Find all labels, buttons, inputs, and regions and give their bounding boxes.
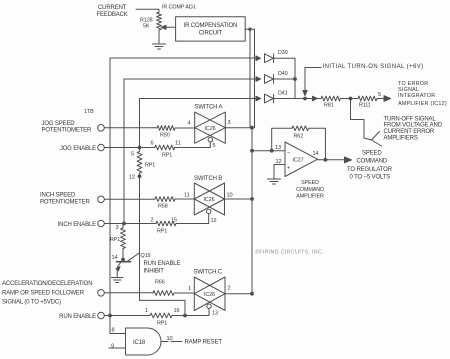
wire diode cathode bus: [294, 58, 296, 98]
svg-text:R58: R58: [158, 204, 168, 210]
svg-text:IC18: IC18: [133, 340, 146, 346]
wiper wire R128 to IR compensation box: [165, 26, 176, 28]
svg-text:14: 14: [112, 255, 118, 261]
terminal run enable: [98, 312, 105, 319]
svg-text:2: 2: [151, 218, 154, 224]
wire run-enable riser V1 to D39: [110, 58, 257, 316]
wire gate output pin 10 to ramp reset: [161, 341, 182, 343]
svg-text:R81: R81: [324, 103, 334, 109]
svg-text:SPEED: SPEED: [301, 180, 319, 186]
svg-text:5: 5: [131, 152, 134, 158]
wire run enable line: [105, 315, 151, 317]
svg-text:COMMAND: COMMAND: [357, 159, 388, 165]
svg-text:1TB: 1TB: [84, 109, 94, 115]
resistor RP1 pins 2-15: [156, 221, 176, 226]
svg-text:FEEDBACK: FEEDBACK: [97, 12, 128, 18]
svg-text:+: +: [287, 166, 290, 172]
analog switch C IC26: [194, 277, 225, 311]
potentiometer R128: [157, 12, 162, 30]
wire RP1 pin16 to switch C control: [172, 309, 209, 316]
svg-text:15: 15: [171, 218, 177, 224]
svg-text:2: 2: [228, 286, 231, 292]
svg-text:POTENTIOMETER: POTENTIOMETER: [42, 128, 93, 134]
svg-text:JOG SPEED: JOG SPEED: [42, 121, 76, 127]
analog switch A IC26: [195, 112, 226, 143]
svg-text:AMPLIFIER (IC12): AMPLIFIER (IC12): [398, 101, 447, 107]
svg-text:9: 9: [111, 344, 114, 350]
svg-text:D40: D40: [278, 71, 288, 77]
wire inch-enable riser V2 to D40: [124, 79, 257, 224]
svg-text:RUN ENABLE: RUN ENABLE: [59, 314, 96, 320]
resistor R50: [157, 126, 175, 131]
wire inch enable line: [105, 223, 157, 225]
svg-text:IC26: IC26: [204, 292, 215, 298]
svg-text:IR COMP ADJ.: IR COMP ADJ.: [162, 5, 197, 11]
svg-text:SWITCH C: SWITCH C: [194, 270, 223, 276]
terminal jog enable: [98, 144, 105, 151]
wire arrow into D39: [256, 56, 261, 61]
svg-text:8: 8: [112, 328, 115, 334]
svg-text:11: 11: [175, 141, 181, 147]
svg-text:1: 1: [145, 308, 148, 314]
svg-text:INHIBIT: INHIBIT: [144, 269, 165, 275]
terminal accel ramp: [98, 290, 105, 297]
svg-text:AMPLIFIERS: AMPLIFIERS: [384, 136, 418, 142]
switch B control bubble: [207, 209, 211, 213]
resistor R66: [153, 291, 174, 296]
svg-text:D41: D41: [278, 91, 288, 97]
svg-text:CIRCUIT: CIRCUIT: [199, 31, 223, 37]
wire RP1 pin11 to switch A control: [175, 142, 211, 148]
wire V3 lower run to run-enable line: [140, 177, 186, 316]
wire feedback loop: [272, 128, 326, 160]
svg-text:R111: R111: [359, 103, 371, 109]
wire op-amp pin 12 to ground: [274, 165, 285, 179]
svg-text:Q19: Q19: [141, 253, 151, 259]
switch C control bubble: [207, 304, 211, 308]
wire main error line to R81: [295, 98, 321, 100]
resistor R58: [155, 197, 175, 202]
svg-text:R66: R66: [155, 280, 165, 286]
svg-text:5K: 5K: [143, 24, 150, 30]
ground below R128: [153, 44, 166, 49]
wire gate input pin 9: [109, 347, 126, 349]
wire V1 run line to gate pin 8: [110, 316, 126, 334]
svg-text:12: 12: [211, 218, 217, 224]
svg-text:RAMP RESET: RAMP RESET: [185, 340, 223, 346]
svg-text:1: 1: [188, 286, 191, 292]
resistor RP1 pins 5-12 vertical: [137, 148, 142, 177]
svg-text:12: 12: [129, 175, 135, 181]
transistor Q19: [117, 261, 131, 263]
wire op-amp output: [318, 159, 346, 161]
arrow speed command output: [345, 157, 352, 163]
diode D41: [265, 94, 296, 103]
arrow R128 wiper: [161, 25, 166, 29]
svg-text:RP1: RP1: [157, 321, 167, 327]
svg-text:−: −: [287, 151, 290, 157]
wire RP1 pin15 to switch B control: [176, 214, 209, 224]
svg-text:10: 10: [167, 336, 173, 342]
svg-text:11: 11: [184, 193, 190, 199]
wire turn-off signal leader: [351, 99, 382, 147]
wire inch speed pot line: [105, 198, 195, 200]
svg-text:RP1: RP1: [145, 163, 155, 169]
svg-text:13: 13: [212, 311, 218, 317]
svg-text:SPEED: SPEED: [362, 151, 382, 157]
resistor R62 feedback: [292, 126, 309, 131]
svg-text:INITIAL TURN-ON SIGNAL (+6V): INITIAL TURN-ON SIGNAL (+6V): [323, 64, 424, 70]
svg-text:IC26: IC26: [205, 126, 216, 132]
svg-text:IC27: IC27: [293, 158, 304, 164]
svg-text:13: 13: [275, 145, 281, 151]
svg-text:RP1: RP1: [110, 237, 120, 243]
svg-text:3: 3: [116, 225, 119, 231]
svg-text:5: 5: [378, 92, 381, 98]
svg-text:INCH SPEED: INCH SPEED: [40, 193, 76, 199]
svg-text:IC26: IC26: [204, 197, 215, 203]
svg-text:RP1: RP1: [162, 153, 172, 159]
svg-text:12: 12: [276, 159, 282, 165]
svg-text:D39: D39: [278, 50, 288, 56]
svg-text:3: 3: [228, 120, 231, 126]
svg-text:R50: R50: [160, 133, 170, 139]
svg-text:CURRENT ERROR: CURRENT ERROR: [384, 129, 435, 135]
diode D40: [265, 75, 296, 84]
svg-text:10: 10: [227, 193, 233, 199]
terminal inch enable: [98, 220, 105, 227]
wire arrow on error line: [313, 96, 318, 101]
svg-text:INCH ENABLE: INCH ENABLE: [58, 222, 97, 228]
svg-text:14: 14: [313, 151, 319, 157]
wire switch A output to bus: [225, 127, 252, 129]
resistor RP1 pins 1-16: [150, 313, 172, 318]
wire bus to op-amp pin 13: [252, 150, 285, 152]
svg-text:0 TO −5 VOLTS: 0 TO −5 VOLTS: [350, 175, 391, 181]
wire initial turn-on leader: [305, 68, 321, 96]
ground below op-amp pin 12: [268, 179, 281, 184]
wire jog enable line: [105, 147, 155, 149]
AND gate IC18: [126, 328, 162, 355]
svg-text:IR COMPENSATION: IR COMPENSATION: [184, 23, 238, 29]
arrow to error signal integrator: [384, 96, 391, 102]
svg-text:SWITCH A: SWITCH A: [195, 105, 223, 111]
diode D39: [265, 54, 296, 63]
svg-text:TO REGULATOR: TO REGULATOR: [347, 167, 393, 173]
svg-text:AMPLIFIER: AMPLIFIER: [296, 194, 324, 200]
switch A control bubble: [208, 138, 212, 142]
IR compensation circuit box U-IRC: [176, 17, 246, 41]
svg-text:COMMAND: COMMAND: [296, 187, 324, 193]
svg-text:RAMP OR SPEED FOLLOWER: RAMP OR SPEED FOLLOWER: [2, 291, 85, 297]
svg-text:6: 6: [151, 141, 154, 147]
node bus summing vertical: [251, 128, 253, 294]
wire accel ramp line: [105, 292, 195, 294]
wire jog speed pot line: [105, 127, 195, 129]
wire R128 to ground: [158, 30, 160, 44]
wire IR comp output: [245, 28, 254, 30]
svg-text:POTENTIOMETER: POTENTIOMETER: [40, 200, 91, 206]
svg-text:SIGNAL (0 TO +5VDC): SIGNAL (0 TO +5VDC): [2, 300, 61, 306]
svg-text:RP1: RP1: [157, 229, 167, 235]
svg-text:FROM VOLTAGE AND: FROM VOLTAGE AND: [384, 123, 443, 129]
op-amp IC27: [285, 142, 318, 177]
resistor RP1 pins 3-14 vertical: [121, 224, 126, 261]
terminal inch speed potentiometer: [98, 196, 105, 203]
svg-text:INTEGRATOR: INTEGRATOR: [398, 93, 435, 99]
svg-text:CURRENT: CURRENT: [98, 5, 127, 11]
svg-text:RUN ENABLE: RUN ENABLE: [144, 261, 181, 267]
wire R81 to R111: [341, 98, 359, 100]
wire IR comp output vertical pair: [250, 29, 255, 128]
resistor RP1 pins 6-11: [155, 145, 175, 150]
wire arrow into D40: [256, 77, 261, 82]
wire R111 to integrator arrow: [377, 98, 385, 100]
wire switch B output to bus: [225, 198, 253, 200]
analog switch B IC26: [194, 183, 224, 215]
junction dots: [138, 146, 141, 149]
svg-text:JOG ENABLE: JOG ENABLE: [60, 146, 96, 152]
wire switch C output to bus: [225, 293, 252, 295]
transistor Q19 emitter arrow: [116, 267, 120, 271]
svg-text:ACCELERATION/DECELERATION: ACCELERATION/DECELERATION: [2, 281, 92, 287]
ground below Q19 emitter: [112, 278, 124, 283]
svg-text:4: 4: [188, 121, 191, 127]
wire jog-enable riser V3 to D41: [140, 99, 258, 148]
arrow down initial turn-on: [303, 91, 307, 96]
wire current feedback to R128: [136, 9, 159, 12]
svg-text:5: 5: [213, 143, 216, 149]
resistor R81: [321, 96, 341, 101]
wire arrow into D41: [256, 96, 261, 101]
svg-text:SWITCH B: SWITCH B: [194, 176, 222, 182]
terminal jog speed potentiometer: [98, 125, 105, 132]
svg-text:R62: R62: [294, 134, 304, 140]
svg-text:16: 16: [174, 308, 180, 314]
resistor R111: [358, 96, 377, 101]
svg-text:©FIRING CIRCUITS, INC.: ©FIRING CIRCUITS, INC.: [255, 249, 324, 256]
